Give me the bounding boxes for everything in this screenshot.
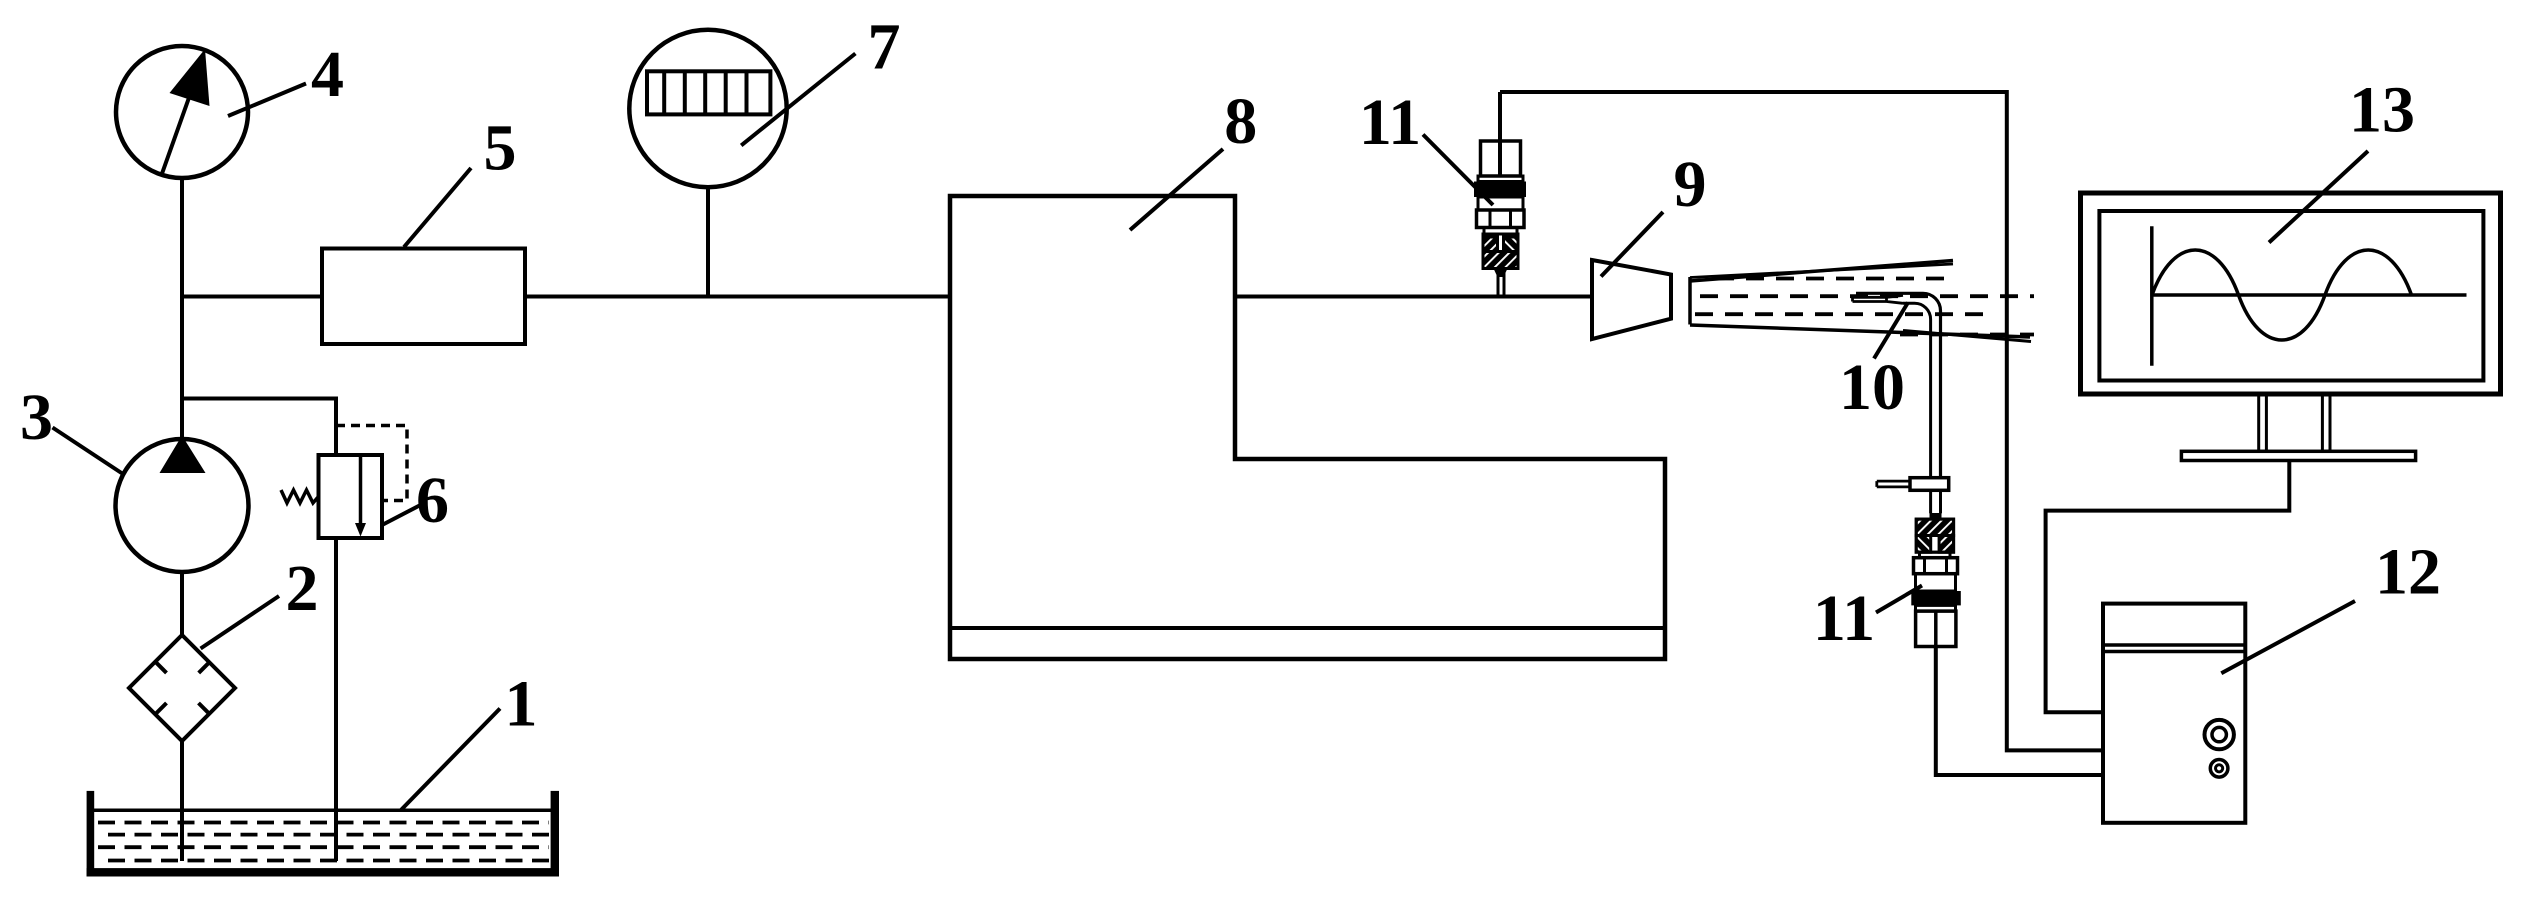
- svg-text:10: 10: [1839, 351, 1905, 424]
- svg-text:9: 9: [1674, 148, 1707, 221]
- svg-text:2: 2: [286, 552, 319, 625]
- svg-text:5: 5: [484, 112, 517, 185]
- svg-text:4: 4: [311, 38, 344, 111]
- svg-text:13: 13: [2349, 74, 2415, 147]
- svg-text:3: 3: [20, 381, 53, 454]
- svg-text:11: 11: [1359, 86, 1421, 159]
- svg-text:11: 11: [1813, 582, 1875, 655]
- svg-text:1: 1: [505, 668, 538, 741]
- svg-text:7: 7: [868, 11, 901, 84]
- svg-text:12: 12: [2375, 536, 2441, 609]
- svg-text:8: 8: [1224, 85, 1257, 158]
- svg-text:6: 6: [416, 464, 449, 537]
